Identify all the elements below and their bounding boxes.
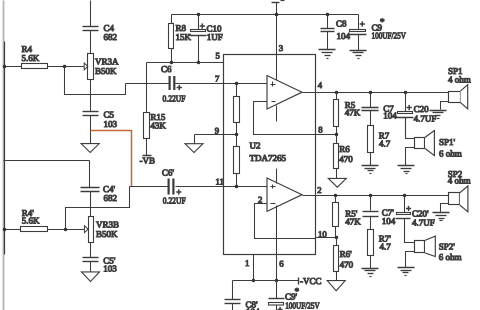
svg-text:U2: U2 xyxy=(250,141,261,151)
svg-text:4.7: 4.7 xyxy=(380,242,392,252)
node bus-R4' junction xyxy=(3,228,6,231)
terminal +VCC (cut off at top) xyxy=(272,1,285,15)
speaker SP1' 6 ohm xyxy=(415,131,462,159)
wire C20 to SP1' xyxy=(406,118,415,139)
wire (orange mod) C5 node to pin11 node xyxy=(91,131,132,187)
wire pin 2 output xyxy=(303,195,449,197)
op-amp U2A xyxy=(267,76,302,110)
resistor R7' 4.7 xyxy=(368,230,392,269)
svg-text:682: 682 xyxy=(104,193,118,203)
wire VR3A bottom to C5 xyxy=(90,80,92,112)
svg-text:*: * xyxy=(295,286,300,296)
page edge (left scan border) xyxy=(3,1,5,310)
wire pin 4 output xyxy=(303,92,449,94)
svg-text:1UF: 1UF xyxy=(207,32,223,42)
svg-text:+: + xyxy=(360,19,365,29)
svg-text:2: 2 xyxy=(317,185,321,195)
svg-text:10: 10 xyxy=(318,229,327,239)
svg-text:0.22UF: 0.22UF xyxy=(163,94,186,104)
feedback wire op-amp 2 (to pin 10) xyxy=(255,204,316,239)
svg-text:682: 682 xyxy=(104,32,118,42)
node out2/R5' junction xyxy=(334,194,337,197)
svg-text:2: 2 xyxy=(258,195,262,205)
pin label 1 xyxy=(245,258,249,268)
op-amp U2B upper power stub xyxy=(276,169,278,184)
wire pin 7 into op-amp xyxy=(176,83,268,85)
wire pin 8 xyxy=(316,134,337,136)
node rail/pin3 junction xyxy=(275,13,279,17)
pin label 5 xyxy=(216,51,220,61)
pin label 3 xyxy=(279,43,283,53)
node pin10 junction xyxy=(335,236,338,239)
wire ch2 input down to C4' xyxy=(89,161,91,188)
pin label 11 xyxy=(216,177,224,187)
wire SP1' return to ground xyxy=(406,148,415,166)
svg-text:C6': C6' xyxy=(162,168,175,178)
node out1/C7 junction xyxy=(369,91,372,94)
ground (signal, open triangle) below C5' xyxy=(82,272,100,282)
wire pin 7 left segment xyxy=(126,83,169,85)
resistor R5 47K xyxy=(334,93,361,135)
node bus-R4 junction xyxy=(3,65,6,68)
svg-text:43K: 43K xyxy=(150,121,166,131)
ground below SP2 xyxy=(433,213,450,221)
top +VCC rail wire xyxy=(172,14,359,16)
ground below SP1 xyxy=(430,111,447,119)
svg-text:8: 8 xyxy=(318,125,323,135)
svg-text:1: 1 xyxy=(245,258,249,268)
resistor R6 470 xyxy=(334,135,354,179)
ground below SP1' xyxy=(398,166,415,174)
svg-text:104: 104 xyxy=(383,111,397,121)
resistor R5' 47K xyxy=(333,196,362,238)
svg-text:11: 11 xyxy=(216,177,224,187)
wire SP1 return to ground xyxy=(441,102,449,110)
resistor R4 5.6K xyxy=(22,44,48,69)
svg-text:5.6K: 5.6K xyxy=(22,216,40,226)
svg-text:3: 3 xyxy=(279,43,283,53)
svg-text:6 ohm: 6 ohm xyxy=(439,252,462,262)
wire bus to R4' xyxy=(5,229,21,231)
ground (signal) below R6 xyxy=(328,178,346,187)
svg-text:4.7: 4.7 xyxy=(379,139,391,149)
capacitor C5' 103 xyxy=(83,256,118,274)
wire pin 11 into op-amp 2 xyxy=(176,186,268,188)
node rail/C8 junction xyxy=(326,13,329,16)
input bus wire xyxy=(4,42,6,255)
ground below SP2' xyxy=(398,268,415,276)
node pin9 junction xyxy=(235,133,238,136)
svg-text:4.7UF: 4.7UF xyxy=(414,114,437,124)
pin label 7 xyxy=(215,74,220,84)
capacitor C6' 0.22UF xyxy=(162,168,186,206)
svg-text:-VCC: -VCC xyxy=(300,276,322,286)
svg-text:B50K: B50K xyxy=(96,229,118,239)
ground (signal) below R6' xyxy=(327,281,345,291)
wire pin 11 left segment xyxy=(130,186,168,188)
svg-text:+: + xyxy=(407,102,412,112)
IC U2 TDA7265 box xyxy=(224,55,316,255)
pin label 8 xyxy=(318,125,323,135)
svg-text:5: 5 xyxy=(216,51,220,61)
resistor R4' 5.6K xyxy=(21,208,48,232)
wire bus to R4 xyxy=(5,66,22,68)
capacitor C4 682 xyxy=(83,23,118,54)
internal resistor (upper) xyxy=(234,84,240,135)
pin label 10 xyxy=(318,229,327,239)
wire pin 1 lead xyxy=(253,255,255,281)
op-amp U2B xyxy=(267,178,302,211)
pin label 6 xyxy=(279,259,284,269)
svg-text:5.6K: 5.6K xyxy=(22,53,40,63)
svg-text:+: + xyxy=(406,204,411,214)
wire pin5 node down to R15 xyxy=(146,63,148,113)
feedback wire op-amp 1 (to pin 8) xyxy=(254,102,316,135)
svg-text:7: 7 xyxy=(215,74,220,84)
capacitor C20 4.7UF (polarized) xyxy=(397,93,437,139)
svg-text:103: 103 xyxy=(103,264,117,274)
terminal -VCC xyxy=(299,276,322,286)
potentiometer VR3A B50K xyxy=(84,54,119,80)
svg-text:6 ohm: 6 ohm xyxy=(439,149,462,159)
svg-text:470: 470 xyxy=(340,260,354,270)
speaker SP2 4 ohm xyxy=(448,169,471,212)
svg-text:100UF/25V: 100UF/25V xyxy=(372,31,407,41)
capacitor C5 103 xyxy=(83,110,118,144)
ground below R7 xyxy=(362,166,379,174)
wire pin 10 xyxy=(316,237,337,239)
wire SP2' return to ground xyxy=(406,252,415,268)
wire C4 top lead from top edge xyxy=(90,1,92,27)
svg-text:C8: C8 xyxy=(336,19,347,29)
svg-text:R6': R6' xyxy=(340,249,353,259)
svg-text:104: 104 xyxy=(337,31,351,41)
svg-text:VR3B: VR3B xyxy=(96,220,119,230)
pin label 9 xyxy=(215,126,219,136)
capacitor C20' 4.7UF (polarized) xyxy=(396,196,435,243)
svg-text:103: 103 xyxy=(104,119,118,129)
capacitor C9' 100UF/25V (polarized) xyxy=(269,281,321,310)
svg-text:0.22UF: 0.22UF xyxy=(163,196,186,206)
svg-text:4 ohm: 4 ohm xyxy=(448,176,471,186)
ground below R7' xyxy=(362,269,379,277)
node pin1 junction xyxy=(252,279,255,282)
capacitor C8 104 xyxy=(321,15,351,50)
wire node B up and over to C6' (pin11 path) xyxy=(66,187,130,230)
wire node A down and over to C6 (pin7 path) xyxy=(65,67,126,95)
svg-text:470: 470 xyxy=(339,154,353,164)
node out2/C7' junction xyxy=(369,194,372,197)
ground (signal, open triangle) below C5 xyxy=(81,144,99,153)
speaker SP1 4 ohm xyxy=(406,66,471,109)
wire VR3B bottom to C5' xyxy=(90,243,92,258)
pin label 2 xyxy=(317,185,321,195)
wire R4' to VR3B wiper xyxy=(48,229,85,231)
svg-text:TDA7265: TDA7265 xyxy=(250,153,287,163)
ground (signal) on pin 9 xyxy=(185,135,203,153)
wire R4 to VR3A wiper xyxy=(48,66,85,68)
svg-text:B50K: B50K xyxy=(95,66,117,76)
potentiometer VR3B B50K xyxy=(84,217,119,243)
capacitor C10 1UF (polarized) xyxy=(190,15,223,63)
svg-text:C5: C5 xyxy=(104,110,115,120)
svg-text:VR3A: VR3A xyxy=(95,57,119,67)
node R8/pin5 junction xyxy=(170,61,173,64)
resistor R7 4.7 xyxy=(368,126,391,166)
wire pin 6 (op-amp 2 to bottom) xyxy=(276,206,278,281)
svg-text:+: + xyxy=(278,305,283,310)
capacitor C7' 104 xyxy=(363,196,396,230)
speaker SP2' 6 ohm xyxy=(415,236,462,262)
wire C20' to SP2' xyxy=(405,219,415,243)
pin label 2 (feedback) xyxy=(258,195,262,205)
capacitor C6 0.22UF xyxy=(161,64,186,104)
wire SP2 return to ground xyxy=(441,204,449,213)
svg-text:100UF/25V: 100UF/25V xyxy=(285,301,320,310)
node pin7/internal divider junction xyxy=(235,82,238,85)
svg-text:SP1': SP1' xyxy=(439,137,456,147)
node pin11 junction xyxy=(235,185,238,188)
resistor R6' 470 xyxy=(334,238,354,281)
svg-text:15K: 15K xyxy=(176,32,192,42)
capacitor C9 100UF/25V (polarized) xyxy=(350,15,407,51)
internal resistor (lower) xyxy=(234,135,240,187)
wire pin 3 (+VCC into op-amp 1) xyxy=(276,15,278,86)
resistor R8 15K xyxy=(169,15,192,63)
svg-text:9: 9 xyxy=(215,126,219,136)
node pin6 junction xyxy=(275,279,278,282)
node pin8 junction xyxy=(335,133,338,136)
node B: R4'/wiper junction xyxy=(64,228,67,231)
svg-text:47K: 47K xyxy=(345,108,361,118)
svg-text:4: 4 xyxy=(318,80,323,90)
wire ch2 input from page edge xyxy=(4,160,90,162)
svg-text:C6: C6 xyxy=(161,64,172,74)
svg-text:104: 104 xyxy=(382,216,396,226)
wire -VCC bottom rail xyxy=(233,280,299,282)
ground below C9 xyxy=(350,51,367,59)
svg-text:4.7UF: 4.7UF xyxy=(412,218,435,228)
op-amp U2A lower power stub xyxy=(276,106,278,122)
svg-text:R6: R6 xyxy=(339,144,350,154)
capacitor C8' 104 xyxy=(225,281,261,310)
svg-text:*: * xyxy=(380,17,385,27)
svg-text:104: 104 xyxy=(246,307,260,310)
ground below C8 xyxy=(319,50,336,59)
svg-text:+: + xyxy=(200,21,205,31)
node out1/R5 junction xyxy=(335,91,338,94)
capacitor C4' 682 xyxy=(81,184,118,217)
node rail/C10 junction xyxy=(197,13,200,16)
pin label 4 xyxy=(318,80,323,90)
wire pin 9 xyxy=(195,134,237,136)
node A: R4/wiper junction xyxy=(63,65,66,68)
node out2/C20' junction xyxy=(403,194,406,197)
wire pin 5 xyxy=(147,62,224,64)
svg-text:4 ohm: 4 ohm xyxy=(448,75,471,85)
svg-text:C20: C20 xyxy=(414,104,430,114)
resistor R15 43K xyxy=(144,112,167,139)
svg-text:SP2': SP2' xyxy=(439,242,456,252)
svg-text:47K: 47K xyxy=(345,217,361,227)
node C10/pin5 junction xyxy=(197,61,200,64)
svg-text:-VB: -VB xyxy=(140,156,156,166)
node out1/C20 junction xyxy=(404,91,407,94)
capacitor C7 104 xyxy=(362,93,398,126)
svg-text:6: 6 xyxy=(279,259,284,269)
terminal -VB xyxy=(140,139,156,166)
